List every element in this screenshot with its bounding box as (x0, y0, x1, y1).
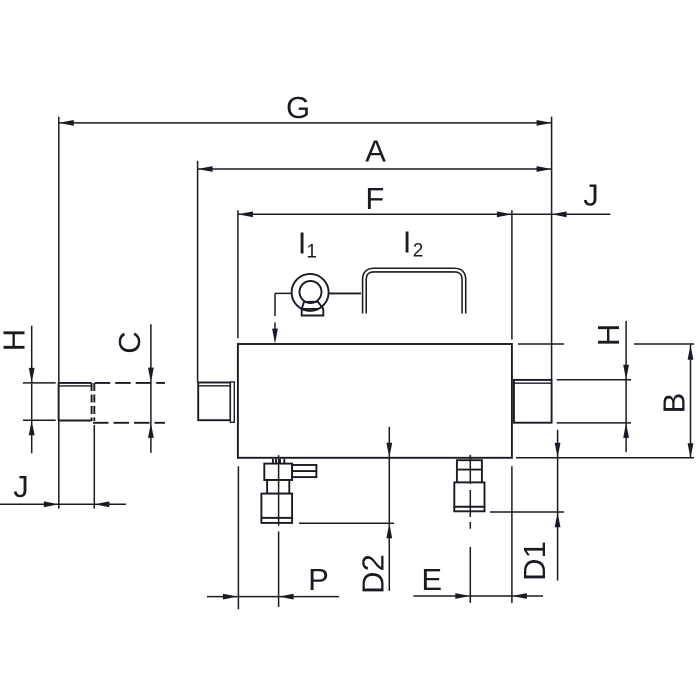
fitting 2 stem (457, 460, 482, 482)
svg-text:J: J (13, 469, 29, 504)
dimension J bottom (0, 425, 126, 509)
dimension D1 (490, 430, 564, 581)
fitting 2 body block (454, 482, 484, 506)
dimension D2 (299, 427, 394, 591)
fitting 1 neck (267, 480, 289, 494)
dimension E (413, 466, 543, 603)
extension line F right (511, 210, 513, 339)
dimension H left (23, 326, 56, 454)
svg-text:D1: D1 (517, 541, 552, 581)
dimension J top arrow (552, 211, 567, 217)
label I2 (403, 225, 424, 262)
svg-text:I: I (403, 225, 412, 260)
dimension F (238, 211, 611, 217)
extension line A left (197, 161, 199, 383)
fitting 2 end cap (454, 507, 484, 512)
extension line G left / left pipe edge (58, 117, 60, 509)
svg-text:A: A (365, 134, 386, 169)
svg-text:J: J (583, 178, 599, 213)
svg-text:1: 1 (306, 242, 317, 263)
dimension G (59, 120, 552, 126)
hidden pipe lines (dashed) (93, 383, 165, 423)
fitting 1 end cap (261, 518, 292, 523)
fitting 1 upper block (264, 464, 292, 480)
fitting 1 thread nubs (273, 459, 284, 464)
label I1 (298, 226, 317, 263)
dimension C (148, 324, 154, 453)
svg-text:P: P (308, 562, 329, 597)
fitting 2 centerline (469, 455, 471, 603)
extension line G/A right (551, 117, 553, 380)
svg-text:B: B (656, 393, 691, 414)
extension line F left (237, 210, 239, 338)
dimension P (207, 466, 339, 609)
eye-bolt I1 inner ring (300, 281, 322, 303)
left body port flange (198, 382, 234, 422)
svg-text:F: F (365, 181, 384, 216)
svg-text:E: E (421, 562, 442, 597)
fitting 1 centerline (278, 455, 280, 607)
svg-text:D2: D2 (356, 554, 391, 594)
pump body (238, 344, 512, 458)
fitting 1 elbow arm (292, 465, 316, 477)
dimension A (198, 166, 552, 172)
svg-text:G: G (286, 90, 310, 125)
left pipe end detail (59, 383, 92, 421)
dimension B (516, 344, 694, 458)
fitting 1 lower block (261, 494, 292, 518)
wire between eye-bolt and handle (330, 292, 362, 294)
leader line I1 (272, 293, 292, 343)
svg-text:2: 2 (413, 241, 424, 262)
right port stub (514, 380, 552, 423)
eye-bolt I1 outer ring (292, 274, 329, 311)
svg-text:H: H (0, 329, 31, 351)
dimension H right (557, 321, 631, 452)
eye-bolt I1 base (302, 302, 324, 316)
svg-text:I: I (298, 226, 307, 261)
svg-text:H: H (591, 324, 626, 346)
handle I2 (364, 270, 464, 313)
svg-text:C: C (112, 331, 147, 353)
